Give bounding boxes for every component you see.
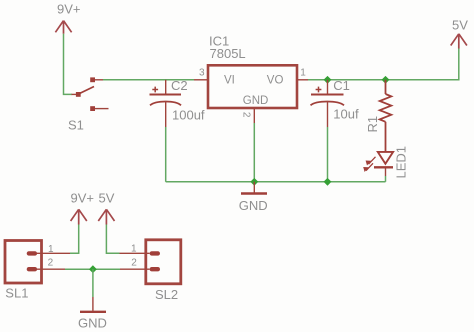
svg-text:SL1: SL1 [5, 286, 28, 301]
svg-text:R1: R1 [365, 116, 380, 133]
junction at R1 top [382, 76, 390, 84]
SL1 pin number 1 [48, 244, 54, 255]
svg-text:C1: C1 [333, 78, 350, 93]
SL2 pin number 2 [131, 258, 137, 269]
svg-text:1: 1 [300, 68, 306, 79]
junction at C1 top [324, 76, 332, 84]
IC1 pin 3 stub [194, 79, 208, 81]
svg-text:2: 2 [131, 258, 137, 269]
switch S1 [72, 77, 109, 111]
LED LED1 [363, 152, 393, 176]
supply arrow 5V (top right) [451, 34, 467, 49]
svg-text:SL2: SL2 [155, 287, 178, 302]
net 5V label (top right) [452, 18, 468, 33]
svg-text:1: 1 [48, 244, 54, 255]
R1 label (rotated) [365, 116, 380, 133]
pin2 rail wire SL1-SL2 [65, 268, 120, 270]
svg-text:VO: VO [267, 75, 284, 87]
svg-text:C2: C2 [171, 78, 188, 93]
net 9V+ label (top) [57, 2, 81, 17]
GND label (bottom) [78, 316, 107, 331]
connector SL1 [5, 241, 70, 284]
IC1 value 7805L [210, 46, 246, 61]
IC1 pin 2 stub (to ground) [253, 108, 255, 123]
IC1 pin name GND [243, 95, 269, 107]
SL1 label [5, 286, 28, 301]
SL2 pin number 1 [131, 243, 137, 254]
ground symbol GND (bottom) [80, 297, 106, 312]
wire GND tap down [92, 269, 94, 297]
svg-text:3: 3 [199, 68, 205, 79]
svg-text:9V+: 9V+ [71, 191, 95, 206]
wire LED to ground rail [385, 176, 387, 182]
ground symbol GND (upper) [241, 182, 267, 194]
supply arrow 5V (bottom) [98, 209, 114, 224]
pin number 2 (rotated) [240, 112, 251, 118]
wire C2 to ground rail [165, 127, 167, 182]
svg-text:5V: 5V [452, 18, 468, 33]
supply arrow 9V+ (bottom) [71, 209, 87, 224]
svg-text:100uf: 100uf [172, 108, 205, 123]
svg-text:10uf: 10uf [333, 107, 359, 122]
pin number 1 [300, 68, 306, 79]
junction ground rail / C1 [324, 178, 332, 186]
svg-text:VI: VI [224, 75, 235, 87]
C2 value 100uf [172, 108, 205, 123]
wire 5V arrow to SL2 pin 1 [106, 225, 119, 254]
IC1 pin 1 stub [298, 79, 309, 81]
IC1 name label [209, 34, 229, 49]
junction ground rail / IC GND [250, 178, 258, 186]
LED1 label (rotated) [393, 146, 408, 179]
IC1 pin name VI [224, 75, 235, 87]
resistor R1 [380, 80, 392, 151]
svg-text:LED1: LED1 [393, 146, 408, 179]
wire IC pin1 to 5V corner [308, 48, 459, 80]
svg-text:GND: GND [78, 316, 107, 331]
wire IC GND pin to ground rail [253, 123, 255, 182]
pin number 3 [199, 68, 205, 79]
wire switch to IC pin 3 [103, 79, 194, 81]
ground rail wire [166, 181, 386, 183]
op-amp/regulator IC1 box [208, 65, 297, 108]
svg-text:9V+: 9V+ [57, 2, 81, 17]
wire C1 to ground rail [327, 127, 329, 182]
svg-text:1: 1 [131, 243, 137, 254]
S1 label [68, 118, 84, 133]
capacitor C2 [150, 80, 182, 127]
connector SL2 [120, 240, 181, 284]
wire from 9V+ to switch pole [64, 34, 73, 95]
svg-text:2: 2 [240, 112, 251, 118]
C1 value 10uf [333, 107, 359, 122]
SL1 pin number 2 [48, 258, 54, 269]
wire 9V+ arrow to SL1 pin 1 [70, 225, 79, 254]
SL2 label [155, 287, 178, 302]
C1 label [333, 78, 350, 93]
IC1 pin name VO [267, 75, 284, 87]
svg-text:S1: S1 [68, 118, 84, 133]
capacitor C1 [311, 80, 345, 127]
GND label (upper) [239, 198, 268, 213]
svg-text:GND: GND [239, 198, 268, 213]
svg-text:GND: GND [243, 95, 269, 107]
C2 label [171, 78, 188, 93]
svg-text:5V: 5V [99, 191, 115, 206]
net 9V+ label (bottom) [71, 191, 95, 206]
svg-text:7805L: 7805L [210, 46, 246, 61]
supply arrow 9V+ (top) [55, 21, 71, 34]
svg-text:2: 2 [48, 258, 54, 269]
net 5V label (bottom) [99, 191, 115, 206]
junction pin2 rail / GND tap [89, 265, 97, 273]
